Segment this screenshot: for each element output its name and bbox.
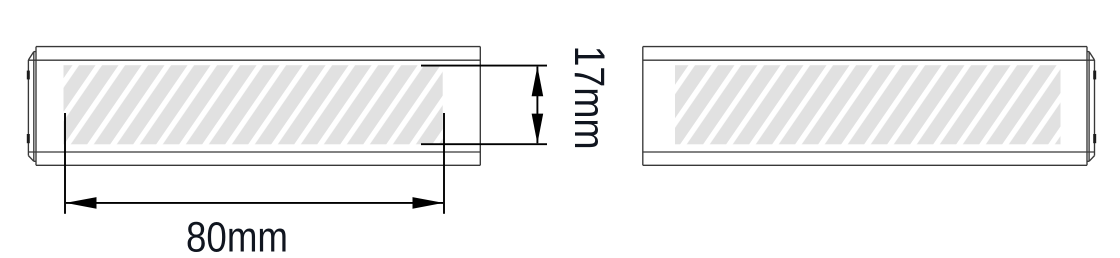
- end cap bottom shoulder: [34, 160, 36, 162]
- dimension line (80mm): [66, 202, 443, 204]
- hatched LED strip area (left profile): [64, 65, 443, 144]
- mounting clip tab lower (left cap): [27, 134, 30, 143]
- mounting clip tab upper (right cap): [1093, 71, 1096, 80]
- end cap inner edge (left): [33, 52, 35, 162]
- end cap outer face (left): [27, 60, 29, 156]
- arrowhead bottom (17mm): [532, 114, 544, 144]
- wire: bottom edge: [643, 164, 1087, 166]
- end cap inner edge (right): [1088, 52, 1090, 162]
- mounting clip tab lower (right cap): [1093, 134, 1096, 143]
- dimension line (17mm): [536, 67, 538, 144]
- wire: right body edge: [1086, 47, 1088, 166]
- svg-text:80mm: 80mm: [186, 214, 288, 258]
- end cap top shoulder: [34, 51, 36, 53]
- extension line top (17mm): [421, 65, 547, 67]
- wire: inner top line: [643, 59, 1095, 61]
- body outline (right profile): [643, 47, 1095, 166]
- end cap bottom shoulder: [1087, 160, 1089, 162]
- wire: inner top line: [28, 59, 480, 61]
- end cap top chamfer: [28, 52, 33, 60]
- wire: bottom edge: [36, 164, 480, 166]
- arrowhead left (80mm): [66, 197, 97, 209]
- end cap top chamfer: [1089, 52, 1094, 60]
- wire: inner bottom line: [28, 151, 480, 153]
- body outline (left profile): [28, 47, 480, 166]
- mounting clip tab upper (left cap): [27, 71, 30, 80]
- end cap bottom chamfer: [1089, 156, 1094, 162]
- wire: inner bottom line: [643, 151, 1095, 153]
- end cap outer face (right): [1094, 60, 1096, 156]
- extension line bottom (17mm): [421, 143, 547, 145]
- wire: right body edge: [479, 47, 481, 166]
- end cap bottom chamfer: [28, 156, 33, 162]
- end cap top shoulder: [1087, 51, 1089, 53]
- wire: top edge: [36, 46, 480, 48]
- arrowhead top (17mm): [532, 66, 544, 96]
- wire: top edge: [643, 46, 1087, 48]
- svg-text:17mm: 17mm: [565, 46, 613, 150]
- wire: left body edge: [642, 47, 644, 166]
- extension line right (80mm): [443, 113, 445, 214]
- extension line left (80mm): [64, 113, 66, 214]
- hatched LED strip area (right profile): [675, 65, 1061, 144]
- arrowhead right (80mm): [413, 197, 444, 209]
- wire: left body edge: [35, 47, 37, 166]
